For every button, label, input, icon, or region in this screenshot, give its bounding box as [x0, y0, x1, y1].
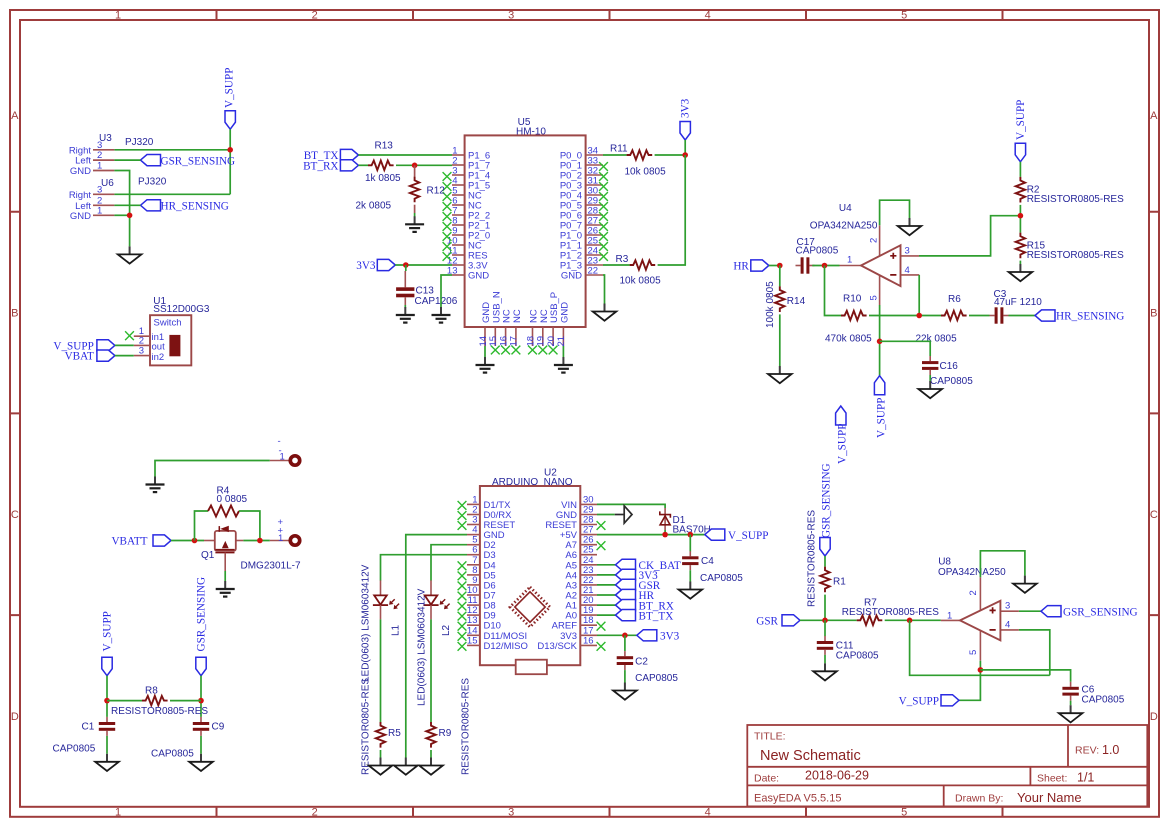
- svg-text:C1: C1: [82, 722, 95, 733]
- ground (R12): [405, 216, 424, 232]
- svg-text:17: 17: [509, 336, 520, 347]
- svg-text:3: 3: [508, 806, 514, 818]
- svg-text:GSR_SENSING: GSR_SENSING: [821, 463, 833, 538]
- svg-text:2: 2: [312, 806, 318, 818]
- connector U6 PJ320: [69, 177, 167, 222]
- resistor R3 10k 0805: [616, 254, 662, 287]
- svg-text:D: D: [11, 711, 19, 723]
- ground (C6): [1059, 705, 1083, 722]
- wire U5 pin21 to ground: [562, 346, 564, 357]
- ground (C1): [95, 754, 119, 771]
- svg-text:3: 3: [905, 246, 910, 257]
- svg-text:22: 22: [588, 266, 599, 277]
- svg-text:R11: R11: [610, 144, 628, 155]
- svg-text:PJ320: PJ320: [138, 177, 167, 188]
- node junction R4/Q1 right: [257, 538, 263, 544]
- node junction 3V3/C13: [403, 262, 409, 268]
- node junction C4/+5V: [688, 532, 694, 538]
- svg-text:R6: R6: [948, 294, 961, 305]
- pad minus terminal: [278, 436, 300, 465]
- wire U4 pin3 to divider: [919, 216, 1020, 256]
- svg-text:1: 1: [97, 205, 102, 216]
- node junction R10/R6/pin4: [916, 313, 922, 319]
- wire C16 to ground: [929, 375, 931, 381]
- node junction V_SUPP/U3.3: [227, 147, 233, 153]
- svg-text:R5: R5: [388, 728, 401, 739]
- capacitor C3 47uF 1210: [969, 289, 1042, 324]
- svg-text:D: D: [1150, 711, 1158, 723]
- net flag 3V3 (pin17): [637, 630, 680, 643]
- capacitor C17 CAP0805: [796, 237, 839, 274]
- net flag BT_TX (A0): [616, 610, 674, 623]
- resistor R13 1k 0805: [365, 141, 401, 185]
- svg-text:CAP0805: CAP0805: [700, 573, 743, 584]
- wire VBATT to node: [171, 540, 204, 542]
- svg-text:4: 4: [705, 806, 711, 818]
- svg-text:Your Name: Your Name: [1017, 790, 1082, 805]
- svg-text:OPA342NA250: OPA342NA250: [810, 221, 878, 232]
- port GSR_SENSING (bottom-left): [196, 577, 208, 676]
- net flag BT_RX: [303, 160, 358, 173]
- resistor R12 2k 0805: [356, 177, 446, 212]
- pad plus terminal: [278, 517, 300, 545]
- svg-text:L1: L1: [390, 624, 401, 636]
- node junction pin5/C16 rail: [877, 339, 883, 345]
- ground (U5 pin13): [432, 307, 451, 323]
- wire U2 pin4 GND to ground: [406, 535, 467, 758]
- svg-text:R8: R8: [145, 686, 158, 697]
- wire GSR to junction: [800, 619, 857, 621]
- wire U8 pin2 to ground: [980, 551, 1025, 577]
- node junction GSR_SENSING/R8/C9: [198, 698, 204, 704]
- op-amp U4 OPA342NA250: [810, 203, 919, 305]
- svg-text:10k 0805: 10k 0805: [625, 167, 667, 178]
- wire battery minus net: [155, 461, 270, 477]
- svg-text:4: 4: [1005, 620, 1010, 631]
- wire U2 pin30 VIN to D1: [597, 504, 665, 508]
- net flag 3V3 (U5): [356, 259, 395, 272]
- svg-text:CAP0805: CAP0805: [1082, 695, 1125, 706]
- svg-text:1: 1: [97, 161, 102, 172]
- svg-text:3V3: 3V3: [660, 631, 680, 643]
- node junction R11/3V3: [682, 152, 688, 158]
- svg-text:GSR_SENSING: GSR_SENSING: [196, 577, 208, 652]
- svg-text:Date:: Date:: [754, 773, 779, 785]
- resistor R5 RESISTOR0805-RES: [360, 678, 401, 775]
- svg-text:VBATT: VBATT: [111, 536, 147, 548]
- svg-text:1/1: 1/1: [1077, 771, 1094, 785]
- wire U5 pin13 to ground: [441, 275, 452, 307]
- svg-text:PJ320: PJ320: [125, 137, 154, 148]
- svg-text:R10: R10: [843, 294, 862, 305]
- net flag VBATT: [111, 535, 171, 548]
- border zone ticks right: [1149, 212, 1159, 615]
- port V_SUPP (top-left): [223, 68, 235, 130]
- ground (U5 pin22): [593, 304, 617, 321]
- ground (C2): [613, 683, 637, 700]
- svg-text:HR: HR: [733, 261, 749, 273]
- capacitor C13 CAP1206: [396, 265, 458, 307]
- wire rail to C16: [880, 341, 931, 356]
- svg-text:Sheet:: Sheet:: [1037, 773, 1067, 785]
- wire U5 pin22 to ground: [603, 275, 605, 304]
- wire C9 to ground: [200, 736, 202, 754]
- net flag BT_TX: [304, 149, 359, 162]
- svg-text:3: 3: [508, 10, 514, 22]
- node junction V_SUPP/R8/C1: [104, 698, 110, 704]
- svg-text:1k 0805: 1k 0805: [365, 173, 401, 184]
- wire port to R2: [1019, 162, 1021, 177]
- wire feedback rail: [910, 620, 1050, 675]
- svg-text:R12: R12: [427, 186, 446, 197]
- capacitor C6 CAP0805: [1062, 682, 1124, 706]
- wire C1 to ground: [106, 736, 108, 754]
- net flag GSR (A3): [616, 579, 661, 592]
- svg-text:1: 1: [280, 452, 285, 463]
- svg-text:2018-06-29: 2018-06-29: [805, 769, 869, 783]
- wire R11 to junction: [655, 154, 686, 156]
- wire junction to R12: [414, 165, 416, 177]
- net flag V_SUPP (switch): [53, 340, 115, 353]
- wire Q1 gate to ground: [224, 553, 226, 581]
- op-amp U8 OPA342NA250: [938, 557, 1019, 661]
- no-connect X U5 right pins 33-24: [599, 162, 608, 261]
- svg-text:BT_TX: BT_TX: [639, 610, 674, 622]
- svg-text:EasyEDA V5.5.15: EasyEDA V5.5.15: [754, 793, 841, 805]
- wire U4 pin4 down: [918, 275, 920, 316]
- port GSR_SENSING (R1 top): [820, 463, 833, 556]
- svg-text:C2: C2: [635, 657, 648, 668]
- svg-text:D12/MISO: D12/MISO: [484, 641, 528, 652]
- svg-text:3: 3: [1005, 601, 1010, 612]
- wire U8 pin3 to flag: [1019, 610, 1041, 612]
- port 3V3 (top): [680, 98, 692, 140]
- wire junction down to R3: [658, 155, 686, 265]
- ground (Q1 gate): [216, 581, 235, 597]
- wire R13 to U5 pin2: [396, 164, 452, 166]
- svg-text:3V3: 3V3: [680, 98, 692, 118]
- resistor R6 22k 0805: [916, 294, 967, 345]
- node junction 3V3/C2: [622, 633, 628, 639]
- svg-text:BT_RX: BT_RX: [303, 161, 338, 173]
- svg-text:3: 3: [97, 184, 102, 195]
- svg-text:HR_SENSING: HR_SENSING: [1056, 311, 1124, 323]
- svg-text:A: A: [11, 110, 19, 122]
- wire U2 pin17 3V3 to flag: [597, 634, 637, 636]
- svg-text:V_SUPP: V_SUPP: [837, 424, 849, 464]
- node junction gnd net: [127, 213, 133, 219]
- wire R14 to ground: [779, 314, 781, 366]
- wire R15 to ground: [1019, 261, 1021, 264]
- svg-text:2: 2: [312, 10, 318, 22]
- wire port to R1: [824, 556, 826, 567]
- svg-text:3: 3: [139, 346, 144, 357]
- svg-text:1: 1: [947, 611, 952, 622]
- svg-text:3V3: 3V3: [356, 260, 376, 272]
- wire U3 pin1 gnd net: [114, 171, 129, 247]
- transistor Q1 DMG2301L-7: [201, 526, 301, 572]
- svg-text:B: B: [11, 308, 18, 320]
- svg-text:CAP0805: CAP0805: [930, 376, 973, 387]
- resistor R1 RESISTOR0805-RES: [807, 510, 847, 607]
- node junction HR/R14/C17: [777, 263, 783, 269]
- svg-text:1.0: 1.0: [1102, 743, 1119, 757]
- svg-text:TITLE:: TITLE:: [754, 731, 786, 743]
- wire U4 pin5 to V_SUPP: [879, 305, 881, 376]
- svg-text:CAP0805: CAP0805: [151, 749, 194, 760]
- connector U3 PJ320: [69, 133, 154, 177]
- wire GSR_SENSING port down: [200, 676, 202, 717]
- zone letters left: [11, 110, 19, 723]
- svg-text:GSR_SENSING: GSR_SENSING: [1063, 606, 1138, 618]
- wire V_SUPP to U1 pin2: [115, 344, 134, 346]
- switch U1 SS12D00G3: [134, 296, 210, 366]
- wire 3V3 port down: [684, 140, 686, 155]
- diode D1 BAS70H: [660, 508, 711, 536]
- svg-text:V_SUPP: V_SUPP: [728, 530, 768, 542]
- ground (C9): [189, 754, 213, 771]
- ground (C13): [396, 307, 415, 323]
- wire C13 to ground: [404, 305, 406, 308]
- svg-text:22k 0805: 22k 0805: [916, 334, 958, 345]
- node junction R13/R12: [412, 163, 418, 169]
- svg-text:4: 4: [705, 10, 711, 22]
- resistor R10 470k 0805: [825, 294, 872, 345]
- svg-text:GND: GND: [559, 302, 570, 323]
- wire C4 drop: [689, 535, 691, 552]
- svg-text:21: 21: [556, 336, 567, 347]
- svg-text:CAP0805: CAP0805: [836, 651, 879, 662]
- wire U5 pin14 to ground: [484, 346, 486, 357]
- svg-text:2: 2: [869, 238, 880, 243]
- wire U6 pin3: [114, 193, 230, 195]
- net flag BT_RX (A1): [616, 600, 674, 613]
- net flag V_SUPP (U2): [705, 529, 769, 542]
- no-connect X U2 left pins: [458, 501, 467, 651]
- wire 3V3 to U5 pin12: [395, 264, 452, 266]
- wire U6 pin1 gnd: [114, 214, 129, 216]
- svg-text:470k 0805: 470k 0805: [825, 334, 872, 345]
- svg-text:U4: U4: [839, 203, 852, 214]
- resistor R15 RESISTOR0805-RES: [1016, 233, 1124, 261]
- svg-text:New Schematic: New Schematic: [760, 748, 861, 764]
- svg-text:RESISTOR0805-RES: RESISTOR0805-RES: [111, 706, 208, 717]
- wire U3 pin3 to V_SUPP: [114, 149, 230, 151]
- node junction R2/R15: [1018, 213, 1024, 219]
- resistor R11 10k 0805: [610, 144, 666, 178]
- svg-text:RESISTOR0805-RES: RESISTOR0805-RES: [807, 510, 818, 607]
- wire U2 pin29 GND stub: [597, 514, 615, 516]
- wire R5 to ground: [380, 750, 382, 758]
- resistor R7 RESISTOR0805-RES: [842, 598, 939, 626]
- svg-text:U8: U8: [938, 557, 951, 568]
- ground (C11): [813, 663, 837, 680]
- wire C2 to ground: [624, 670, 626, 682]
- ground (C16): [918, 381, 942, 398]
- wire R12 to ground: [414, 205, 416, 217]
- capacitor C11 CAP0805: [817, 636, 879, 662]
- net flag HR_SENSING: [1035, 310, 1124, 323]
- zone letters right: [1150, 110, 1158, 723]
- svg-text:4: 4: [905, 265, 910, 276]
- wire U8 pin5 down to V_SUPP: [959, 661, 980, 701]
- wire U2 pin5 D2 to L2: [431, 545, 467, 581]
- node junction pin5/C6: [978, 667, 984, 673]
- svg-text:2k 0805: 2k 0805: [356, 201, 392, 212]
- ground (U8 pin2): [1013, 576, 1037, 593]
- svg-text:Switch: Switch: [154, 318, 182, 329]
- wire U2 pin27 +5V to V_SUPP: [597, 534, 705, 536]
- net flag HR_SENSING: [141, 200, 229, 213]
- wire C4 to ground: [689, 570, 691, 582]
- svg-text:C: C: [1150, 509, 1158, 521]
- wire R4 right leg: [239, 511, 260, 541]
- svg-text:1: 1: [115, 10, 121, 22]
- svg-text:RESISTOR0805-RES: RESISTOR0805-RES: [842, 607, 939, 618]
- ground (U3/U6): [118, 246, 142, 263]
- svg-text:5: 5: [869, 295, 880, 300]
- capacitor C16 CAP0805: [922, 356, 973, 387]
- wire R1 to junction: [824, 595, 826, 621]
- svg-text:REV:: REV:: [1075, 745, 1099, 757]
- ground (U2 GND chain): [394, 758, 418, 775]
- svg-text:B: B: [1150, 308, 1157, 320]
- capacitor C1 CAP0805: [53, 717, 116, 755]
- wire R8 right: [170, 700, 201, 702]
- node junction D1/+5V: [662, 532, 668, 538]
- port V_SUPP (U4 pin5): [874, 376, 887, 438]
- svg-text:RESISTOR0805-RES: RESISTOR0805-RES: [461, 678, 472, 775]
- ground (R14): [768, 366, 792, 383]
- svg-text:15: 15: [467, 635, 478, 646]
- svg-text:V_SUPP: V_SUPP: [875, 398, 887, 438]
- wire R9 to ground: [430, 750, 432, 758]
- svg-text:5: 5: [901, 10, 907, 22]
- svg-text:GND: GND: [468, 271, 489, 282]
- ground arrow flag (U2 pin29): [615, 506, 632, 523]
- ground (R9): [419, 758, 443, 775]
- ground (R15): [1009, 264, 1033, 281]
- svg-text:U6: U6: [101, 178, 114, 189]
- svg-text:10k 0805: 10k 0805: [620, 276, 662, 287]
- net flag HR (A2): [616, 589, 655, 602]
- svg-text:V_SUPP: V_SUPP: [899, 696, 939, 708]
- svg-text:0 0805: 0 0805: [217, 494, 248, 505]
- svg-text:OPA342NA250: OPA342NA250: [938, 567, 1006, 578]
- capacitor C9 CAP0805: [151, 717, 225, 760]
- svg-text:1: 1: [847, 255, 852, 266]
- LED L1 LED(0603) LSM0603412V: [360, 564, 401, 682]
- node junction R7/feedback: [907, 618, 913, 624]
- wire R2 to junction: [1019, 205, 1021, 233]
- wire R4 left leg: [195, 511, 209, 541]
- svg-text:2: 2: [968, 590, 979, 595]
- svg-text:1: 1: [278, 533, 283, 544]
- ground (R5): [369, 758, 393, 775]
- zone numbers bottom: [115, 806, 907, 818]
- no-connect X U5 bottom pins 15-20: [491, 346, 558, 355]
- node junction VBATT/R4: [192, 538, 198, 544]
- svg-text:L2: L2: [441, 624, 452, 636]
- svg-text:VBAT: VBAT: [65, 351, 94, 363]
- node junction GSR/R1/C11: [822, 618, 828, 624]
- svg-text:CAP0805: CAP0805: [53, 744, 96, 755]
- svg-text:GND: GND: [70, 166, 91, 177]
- wire L1 to R5: [380, 619, 382, 722]
- wire U8 pin4 feedback right: [1019, 630, 1050, 675]
- svg-text:DMG2301L-7: DMG2301L-7: [241, 561, 301, 572]
- wire C11 drop: [824, 620, 826, 636]
- svg-text:C9: C9: [212, 722, 225, 733]
- no-connect X U2 right pins 28,26,18,16: [597, 521, 606, 651]
- wire VBAT to U1 pin3: [115, 355, 134, 357]
- wire C3 to HR_SENSING: [1009, 315, 1036, 317]
- capacitor C4 CAP0805: [682, 551, 743, 584]
- svg-text:Right: Right: [69, 190, 92, 201]
- pad lead plus: [270, 540, 289, 542]
- resistor R8 RESISTOR0805-RES: [111, 686, 208, 718]
- svg-text:5: 5: [968, 650, 979, 655]
- svg-text:R3: R3: [616, 254, 629, 265]
- svg-text:V_SUPP: V_SUPP: [1015, 100, 1027, 140]
- net flag GSR_SENSING (U8 pin3): [1041, 606, 1138, 619]
- resistor R9 RESISTOR0805-RES: [426, 678, 471, 775]
- svg-text:CAP0805: CAP0805: [796, 246, 839, 257]
- svg-text:CAP1206: CAP1206: [415, 296, 458, 307]
- zone numbers top: [115, 10, 907, 22]
- svg-text:16: 16: [583, 635, 594, 646]
- svg-text:NC: NC: [512, 309, 523, 323]
- wire feedback output to R10: [825, 266, 842, 316]
- svg-text:D13/SCK: D13/SCK: [537, 641, 577, 652]
- port V_SUPP (bottom-left): [102, 611, 114, 676]
- svg-text:R13: R13: [375, 141, 394, 152]
- svg-text:CAP0805: CAP0805: [635, 673, 678, 684]
- net flag HR: [733, 260, 768, 273]
- border zone ticks bottom: [217, 807, 1003, 817]
- svg-text:C: C: [11, 509, 19, 521]
- svg-text:RESISTOR0805-RES: RESISTOR0805-RES: [1027, 194, 1124, 205]
- LED L2 LED(0603) LSM0603412V: [417, 580, 452, 706]
- IC U2 ARDUINO_NANO: [467, 468, 597, 675]
- wire U4 pin2 to ground: [880, 200, 910, 225]
- wire junction to R14: [779, 266, 781, 287]
- resistor R4 0 0805: [208, 486, 248, 517]
- no-connect X U5 left pins 3-11: [443, 172, 452, 261]
- wire R3 to U5 pin23: [603, 264, 630, 266]
- svg-text:Q1: Q1: [201, 550, 215, 561]
- svg-text:GSR_SENSING: GSR_SENSING: [161, 155, 236, 167]
- svg-text:Drawn By:: Drawn By:: [955, 793, 1003, 805]
- ground (U5 pin14): [476, 357, 495, 373]
- wire BT_RX to R13: [358, 164, 368, 166]
- svg-text:RESISTOR0805-RES: RESISTOR0805-RES: [360, 678, 371, 775]
- resistor R2 RESISTOR0805-RES: [1016, 177, 1124, 205]
- svg-text:GND: GND: [561, 271, 582, 282]
- svg-text:GND: GND: [70, 211, 91, 222]
- pad lead minus: [270, 460, 289, 462]
- node junction C17/output/feedback: [822, 263, 828, 269]
- port V_SUPP (floating, mid-right): [836, 406, 849, 464]
- wire C2 drop: [624, 635, 626, 651]
- ground (battery minus): [146, 477, 165, 493]
- border zone ticks top: [217, 10, 1003, 20]
- net flag CK_BAT: [616, 559, 681, 572]
- title block frame: [747, 725, 1147, 806]
- wire U2 pin6 D3 to L1: [381, 555, 468, 581]
- ground (U5 pin21): [554, 357, 573, 373]
- wire BT_TX to U5 pin1: [358, 154, 452, 156]
